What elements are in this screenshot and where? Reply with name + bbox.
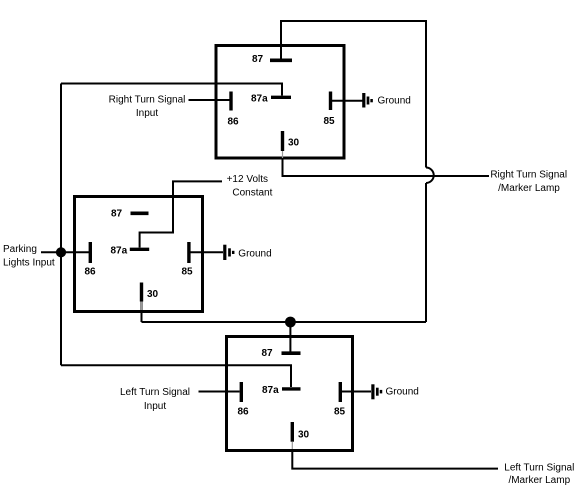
wire: K1 pin 30 to right turn output xyxy=(283,160,490,177)
wire: top horizontal bus to right vertical xyxy=(280,20,426,22)
K3 pin 85 terminal xyxy=(339,382,342,402)
K2 pin 30 terminal xyxy=(140,283,143,302)
K1 pin 30 terminal xyxy=(281,131,284,151)
wire hop over K1-30 output wire xyxy=(426,168,434,184)
wire: right vertical bus upper segment xyxy=(425,20,427,168)
K2 pin 85 terminal xyxy=(187,242,190,263)
ground symbol G2 xyxy=(225,245,233,260)
svg-text:Lights Input: Lights Input xyxy=(3,258,55,269)
K3 pin 87 terminal xyxy=(282,351,301,355)
label: +12 Volts Constant xyxy=(227,174,273,199)
wire: K3 pin 30 to left turn output xyxy=(292,452,498,469)
svg-text:Right Turn Signal: Right Turn Signal xyxy=(109,95,186,106)
K3 pin 86 terminal xyxy=(240,382,243,402)
K2 pin 87 terminal xyxy=(131,212,149,216)
svg-text:Parking: Parking xyxy=(3,244,37,255)
svg-text:85: 85 xyxy=(324,116,336,127)
wire: junction down to K3 pin 87 xyxy=(289,322,291,353)
label: Right Turn Signal Input xyxy=(109,95,186,120)
ground symbol G3 xyxy=(373,384,381,399)
svg-text:Input: Input xyxy=(136,108,158,119)
svg-text:Ground: Ground xyxy=(386,386,419,397)
K3 pin 87a terminal xyxy=(282,387,301,390)
K1 pin 87a terminal xyxy=(271,96,291,99)
svg-text:86: 86 xyxy=(238,407,250,418)
svg-text:Ground: Ground xyxy=(238,248,271,259)
wire: K1 pin 87 up to top bus corner xyxy=(280,21,282,60)
relay K2 (middle) box xyxy=(75,197,203,312)
wire: right turn signal input to K1 pin 86 xyxy=(189,99,230,101)
svg-text:Input: Input xyxy=(144,401,166,412)
wire: K2 pin 85 to ground G2 xyxy=(189,251,223,253)
svg-text:/Marker Lamp: /Marker Lamp xyxy=(508,475,570,486)
svg-text:86: 86 xyxy=(85,267,97,278)
relay K3 (bottom) box xyxy=(227,337,353,451)
svg-text:/Marker Lamp: /Marker Lamp xyxy=(498,183,560,194)
label: Left Turn Signal Input xyxy=(120,387,190,412)
K2 pin 86 terminal xyxy=(89,242,92,263)
wire: left bus bottom to K3 pin 87a xyxy=(61,365,291,387)
wire: right vertical bus lower segment to net-A horizontal xyxy=(425,183,427,322)
svg-text:Ground: Ground xyxy=(378,95,411,106)
svg-text:87: 87 xyxy=(262,348,274,359)
svg-text:86: 86 xyxy=(228,117,240,128)
svg-text:85: 85 xyxy=(334,407,346,418)
wire: net A horizontal (K2-30 to right bus) xyxy=(142,321,427,323)
svg-text:30: 30 xyxy=(288,138,300,149)
wire: K2 pin 30 inner stub (light) xyxy=(141,302,143,311)
K2 pin 87a terminal xyxy=(130,248,149,251)
svg-text:87a: 87a xyxy=(111,246,128,257)
svg-text:30: 30 xyxy=(147,289,159,300)
K1 pin 87 terminal xyxy=(270,58,292,62)
wire: left bus top horizontal to K1 pin 87a xyxy=(61,84,282,96)
svg-text:Left Turn Signal: Left Turn Signal xyxy=(504,463,574,474)
label: Right Turn Signal /Marker Lamp xyxy=(490,170,567,195)
svg-text:Left Turn Signal: Left Turn Signal xyxy=(120,387,190,398)
label: Left Turn Signal /Marker Lamp xyxy=(504,463,574,487)
svg-text:87: 87 xyxy=(252,54,264,65)
junction dot: net A to K3 pin 87 xyxy=(285,317,296,328)
relay K1 (top) box xyxy=(216,46,344,159)
K1 pin 85 terminal xyxy=(329,92,332,111)
wire: K2 pin 30 down to net A xyxy=(141,301,143,322)
wire: K1 pin 85 to ground G1 xyxy=(331,100,363,102)
svg-text:+12 Volts: +12 Volts xyxy=(227,174,268,185)
K3 pin 30 terminal xyxy=(291,422,294,442)
junction dot: parking lights input xyxy=(56,247,66,257)
svg-text:87: 87 xyxy=(111,209,123,220)
svg-text:30: 30 xyxy=(298,429,310,440)
label: Parking Lights Input xyxy=(3,244,55,269)
svg-text:Constant: Constant xyxy=(232,188,272,199)
wire: K3 pin 30 inner stub (light) xyxy=(291,442,293,449)
ground symbol G1 xyxy=(364,93,372,108)
wire: K3 pin 85 to ground G3 xyxy=(341,391,371,393)
wire: K1 pin 30 inner stub (light) xyxy=(282,151,284,158)
wire: parking lights input to K2 pin 86 xyxy=(41,251,89,253)
wire: left turn signal input to K3 pin 86 xyxy=(199,391,240,393)
svg-text:87a: 87a xyxy=(251,94,268,105)
wire: left vertical bus (parking lights net) xyxy=(60,84,62,366)
svg-text:Right Turn Signal: Right Turn Signal xyxy=(490,170,567,181)
svg-text:85: 85 xyxy=(182,267,194,278)
svg-text:87a: 87a xyxy=(262,385,279,396)
wire: +12V feed into K2 pin 87a xyxy=(140,181,222,247)
K1 pin 86 terminal xyxy=(229,92,232,111)
